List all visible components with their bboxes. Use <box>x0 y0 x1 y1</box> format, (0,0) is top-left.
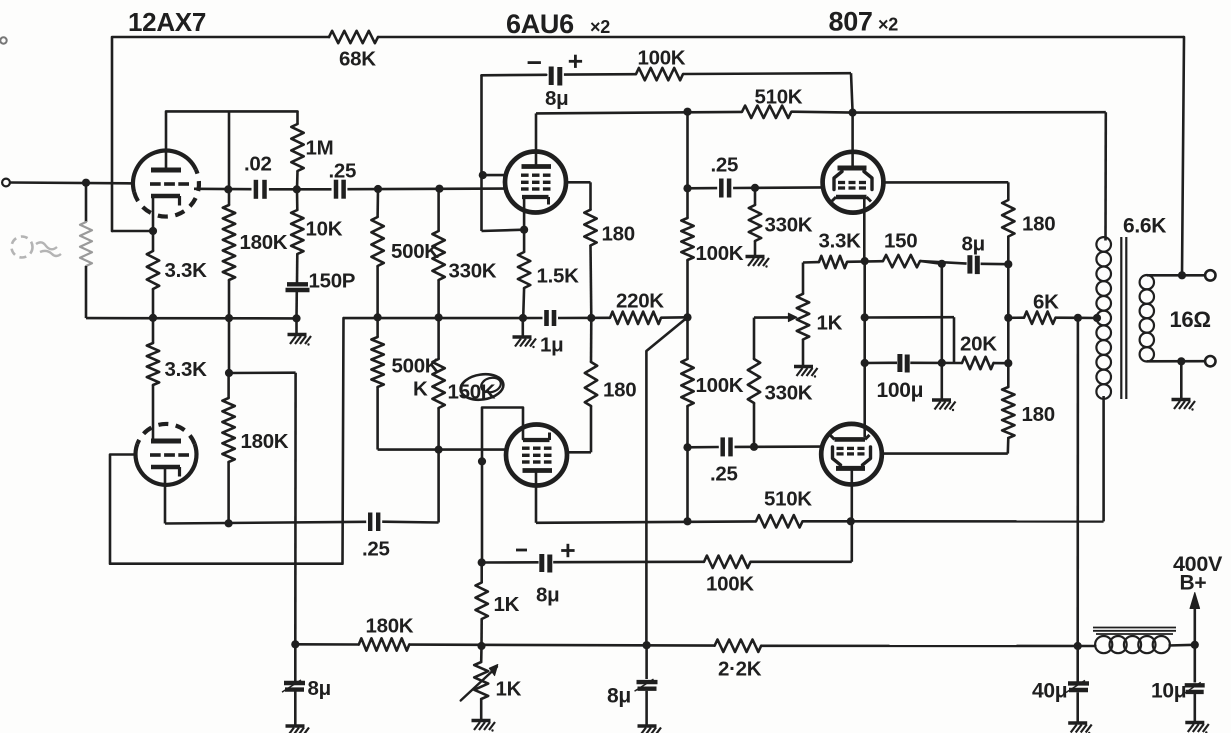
svg-text:330K: 330K <box>765 382 813 405</box>
svg-text:3.3K: 3.3K <box>819 230 862 253</box>
svg-text:.25: .25 <box>329 160 357 183</box>
svg-text:K: K <box>413 378 428 401</box>
svg-text:B+: B+ <box>1180 572 1207 595</box>
svg-text:2·2K: 2·2K <box>718 658 762 681</box>
svg-text:100K: 100K <box>638 47 686 70</box>
svg-text:510K: 510K <box>755 86 803 109</box>
svg-text:.25: .25 <box>362 538 390 561</box>
svg-text:180: 180 <box>1022 213 1055 236</box>
svg-text:150P: 150P <box>309 270 356 293</box>
svg-text:1K: 1K <box>496 678 522 701</box>
svg-text:8μ: 8μ <box>536 584 559 607</box>
svg-text:.02: .02 <box>244 153 272 176</box>
svg-text:×2: ×2 <box>590 17 610 37</box>
svg-text:180: 180 <box>603 379 636 402</box>
svg-text:1M: 1M <box>306 137 334 160</box>
svg-text:180: 180 <box>602 223 635 246</box>
svg-text:1K: 1K <box>494 593 520 616</box>
svg-text:12AX7: 12AX7 <box>128 7 206 37</box>
svg-text:10μ: 10μ <box>1151 680 1186 703</box>
svg-text:330K: 330K <box>449 260 497 283</box>
svg-text:220K: 220K <box>616 290 664 313</box>
svg-text:68K: 68K <box>339 48 376 71</box>
svg-text:150: 150 <box>884 230 917 253</box>
svg-text:6AU6: 6AU6 <box>506 9 574 39</box>
svg-text:1μ: 1μ <box>540 334 563 357</box>
svg-text:807: 807 <box>829 7 873 37</box>
svg-text:180: 180 <box>1022 403 1055 426</box>
svg-text:8μ: 8μ <box>545 87 568 110</box>
svg-text:6K: 6K <box>1033 291 1059 314</box>
svg-text:500K: 500K <box>391 240 439 263</box>
svg-text:500K: 500K <box>392 355 440 378</box>
svg-text:100K: 100K <box>706 573 754 596</box>
svg-text:1.5K: 1.5K <box>537 265 580 288</box>
svg-text:.25: .25 <box>710 463 738 486</box>
svg-text:330K: 330K <box>765 214 813 237</box>
svg-text:3.3K: 3.3K <box>165 358 208 381</box>
svg-text:1K: 1K <box>817 312 843 335</box>
svg-text:.25: .25 <box>711 154 739 177</box>
svg-text:180K: 180K <box>366 615 414 638</box>
svg-text:16Ω: 16Ω <box>1170 307 1211 332</box>
svg-text:100K: 100K <box>696 374 744 397</box>
svg-text:180K: 180K <box>241 430 289 453</box>
svg-text:3.3K: 3.3K <box>165 259 208 282</box>
svg-text:8μ: 8μ <box>962 233 985 256</box>
svg-text:8μ: 8μ <box>308 677 331 700</box>
svg-text:10K: 10K <box>306 218 343 241</box>
svg-text:×2: ×2 <box>878 15 898 35</box>
svg-text:180K: 180K <box>240 231 288 254</box>
svg-text:100K: 100K <box>696 242 744 265</box>
svg-text:20K: 20K <box>960 333 997 356</box>
svg-text:8μ: 8μ <box>607 685 631 708</box>
svg-text:510K: 510K <box>764 488 812 511</box>
svg-text:6.6K: 6.6K <box>1123 215 1166 238</box>
svg-text:40μ: 40μ <box>1032 680 1067 703</box>
svg-text:100μ: 100μ <box>877 379 924 402</box>
